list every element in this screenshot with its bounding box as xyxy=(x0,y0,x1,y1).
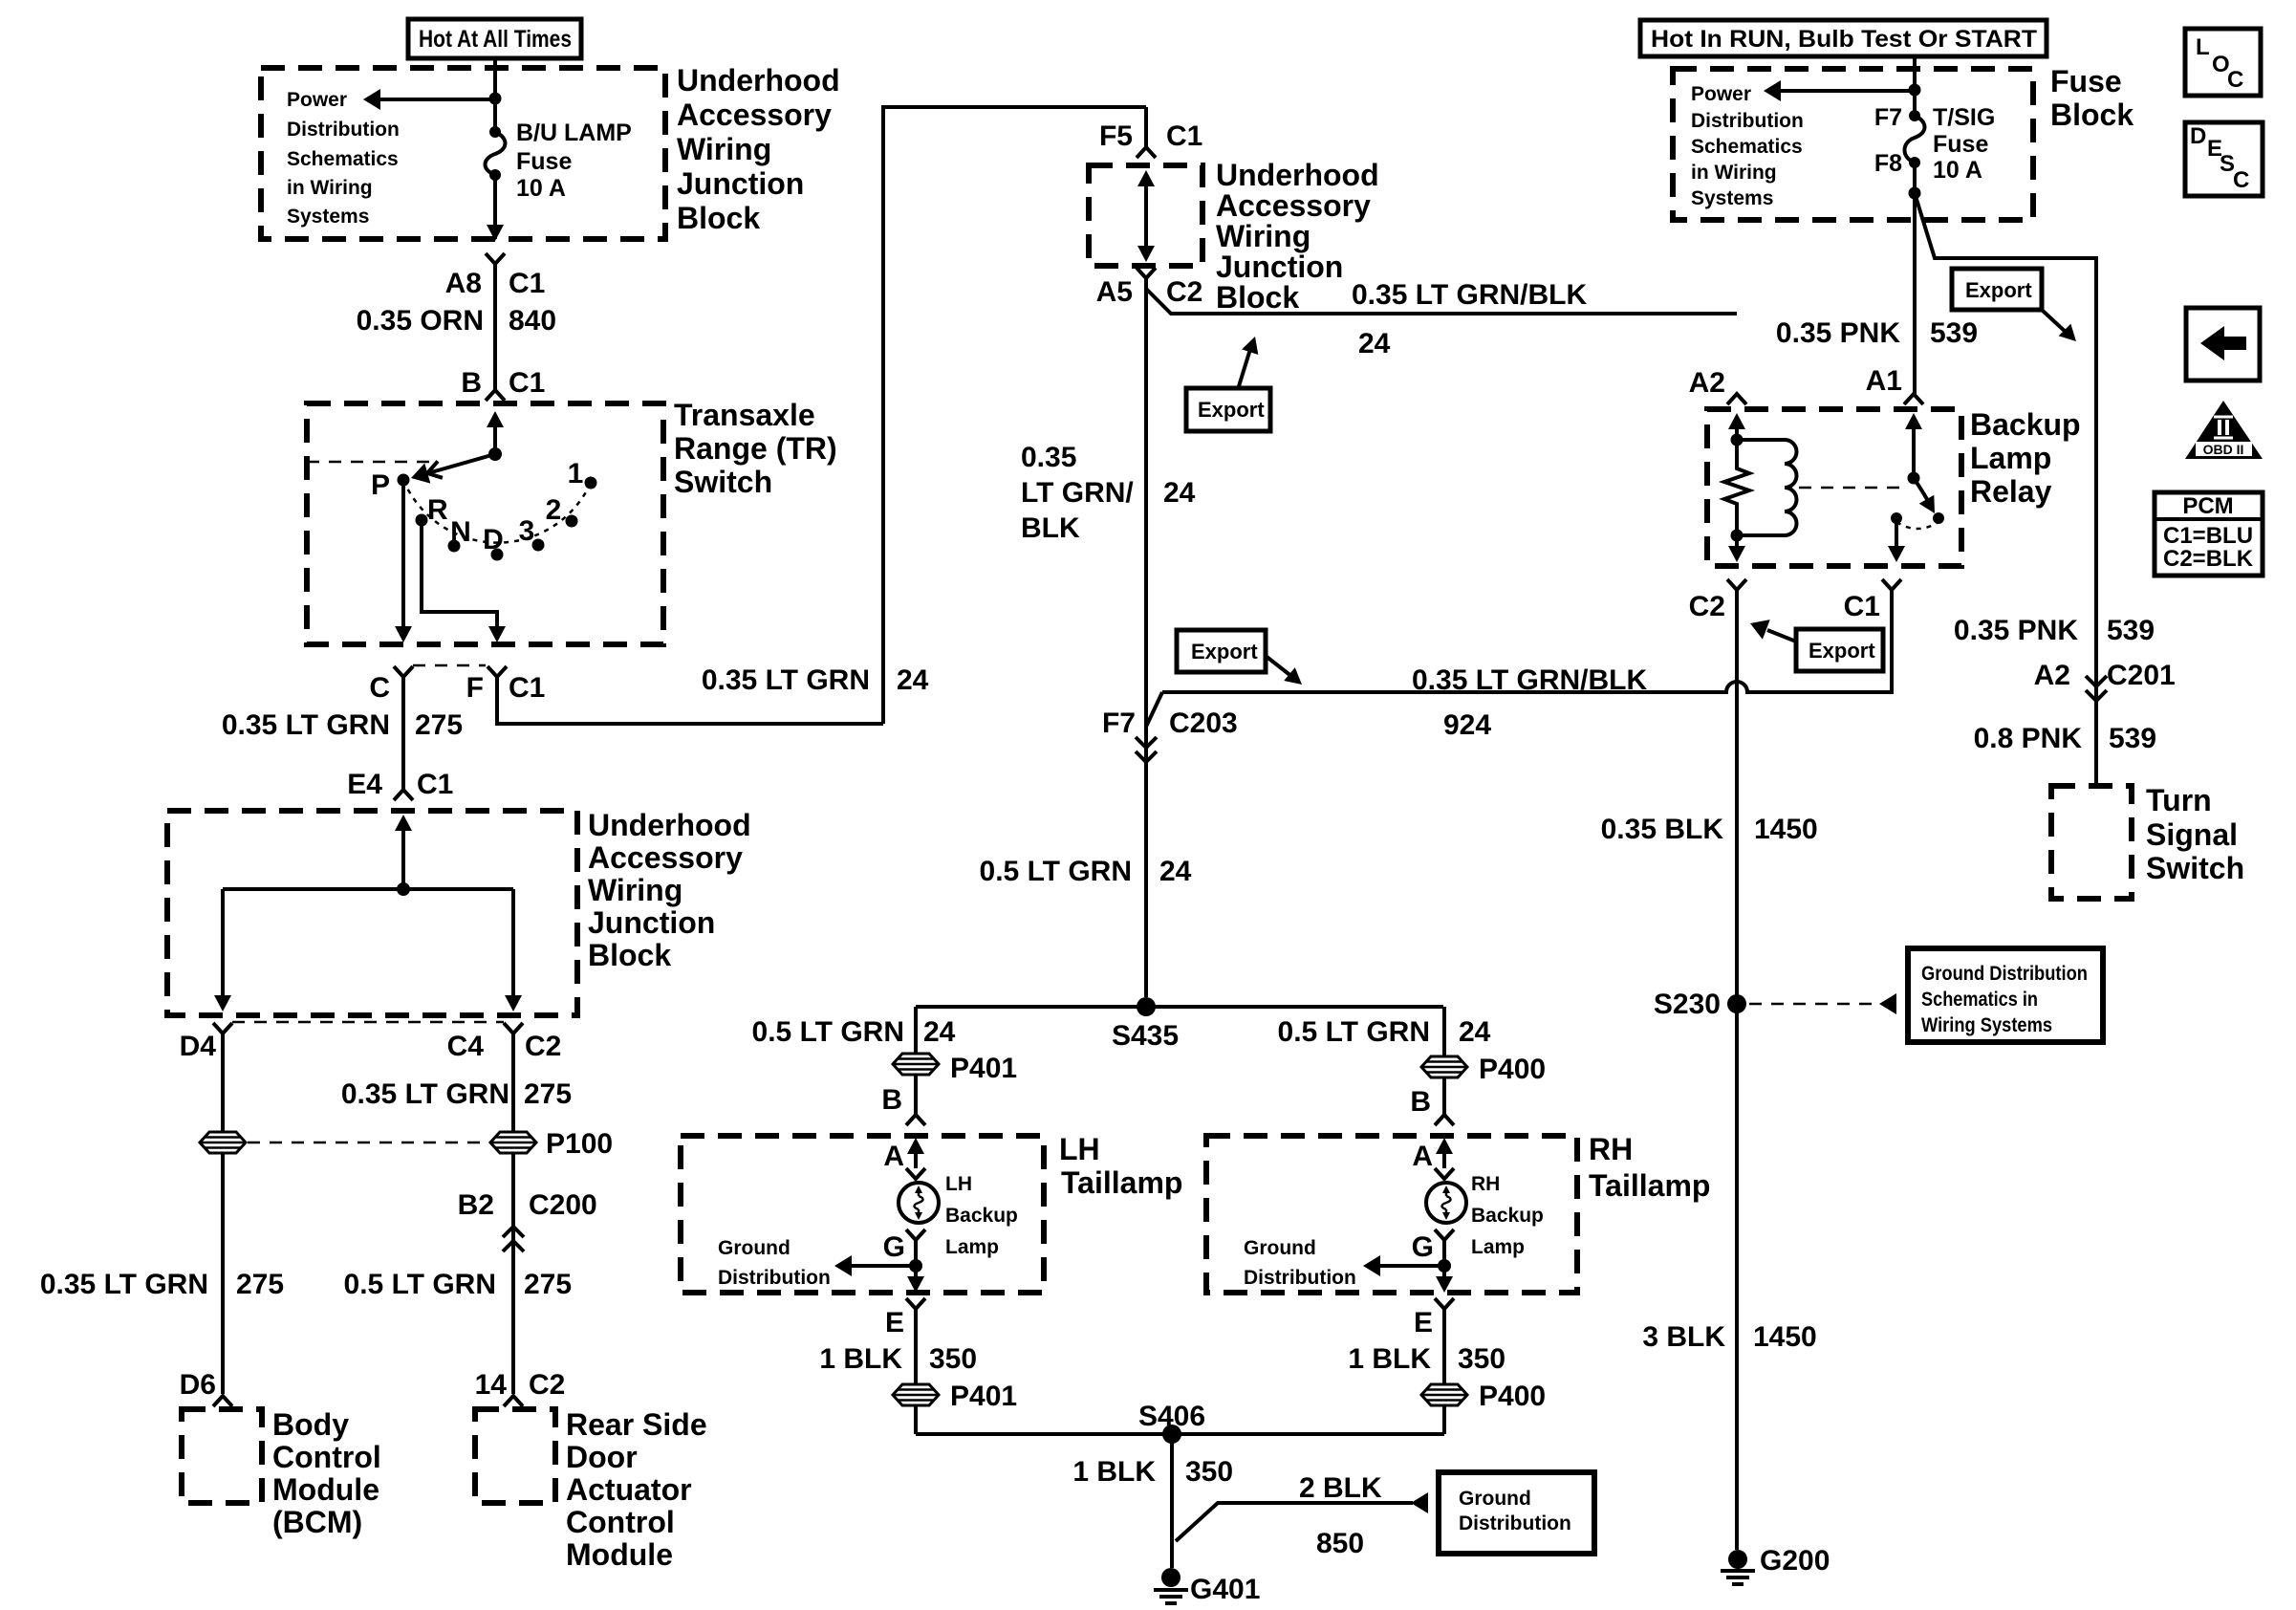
svg-text:0.35 PNK: 0.35 PNK xyxy=(1954,615,2078,646)
node: relay coil bottom xyxy=(1731,530,1744,542)
svg-text:Wiring: Wiring xyxy=(1216,219,1310,253)
svg-text:Distribution: Distribution xyxy=(1691,110,1804,132)
relay link dashed xyxy=(1799,487,1904,490)
svg-text:C1=BLU: C1=BLU xyxy=(2163,523,2253,549)
connector C201 (double chevron down) xyxy=(2086,676,2107,701)
icon: back arrow box xyxy=(2186,308,2260,381)
wire: P400 to pin B (RH) xyxy=(1442,1078,1446,1115)
wire: P401 to pin B xyxy=(914,1076,918,1115)
svg-text:C200: C200 xyxy=(529,1189,597,1221)
svg-text:Accessory: Accessory xyxy=(677,98,832,132)
svg-text:Ground Distribution: Ground Distribution xyxy=(1921,963,2088,985)
TR switch movable arm to P xyxy=(408,454,495,489)
svg-text:0.5 LT GRN: 0.5 LT GRN xyxy=(1278,1016,1430,1048)
svg-text:D4: D4 xyxy=(180,1031,217,1062)
svg-text:Backup: Backup xyxy=(1471,1205,1544,1227)
svg-text:Systems: Systems xyxy=(1691,187,1773,209)
svg-text:C2: C2 xyxy=(525,1031,561,1062)
svg-text:Transaxle: Transaxle xyxy=(674,398,815,432)
svg-text:G401: G401 xyxy=(1190,1574,1260,1605)
wire: F8 down to relay A1 0.35 PNK 539 xyxy=(1913,163,1917,394)
svg-text:0.35 LT GRN: 0.35 LT GRN xyxy=(341,1078,509,1110)
connector P400 upper xyxy=(1421,1056,1467,1077)
node: TR switch arm pivot xyxy=(488,447,502,461)
svg-text:A: A xyxy=(1412,1141,1433,1172)
label: Underhood Accessory Wiring Junction Block (box2) xyxy=(588,808,751,972)
svg-text:850: 850 xyxy=(1316,1528,1364,1559)
svg-text:Block: Block xyxy=(588,938,671,972)
label: Fuse Block xyxy=(2050,64,2134,132)
svg-text:24: 24 xyxy=(1459,1016,1491,1048)
node: RH ground junction xyxy=(1438,1259,1451,1273)
connector E female (LH) xyxy=(906,1298,925,1309)
junction block box 3 (middle) xyxy=(1089,165,1202,266)
svg-text:E4: E4 xyxy=(347,769,382,800)
svg-text:LH: LH xyxy=(1059,1132,1100,1166)
reference text: Ground Distribution (RH) xyxy=(1244,1237,1356,1289)
svg-text:0.5 LT GRN: 0.5 LT GRN xyxy=(752,1016,904,1048)
wire: contact to C1 arrow xyxy=(1888,518,1905,562)
svg-text:0.35 PNK: 0.35 PNK xyxy=(1776,317,1900,349)
svg-text:S435: S435 xyxy=(1112,1020,1179,1052)
svg-text:G: G xyxy=(883,1231,905,1263)
wire: coil to C2 arrow xyxy=(1728,535,1745,562)
connector G female (RH) xyxy=(1435,1229,1454,1240)
connector P401 lower xyxy=(893,1384,939,1405)
svg-text:0.35 LT GRN/BLK: 0.35 LT GRN/BLK xyxy=(1352,279,1587,311)
svg-text:0.8 PNK: 0.8 PNK xyxy=(1974,723,2083,754)
wire: A1 arrow to switch pivot xyxy=(1905,413,1922,478)
svg-text:2 BLK: 2 BLK xyxy=(1299,1472,1382,1504)
connector P100 left xyxy=(200,1132,246,1153)
svg-text:Underhood: Underhood xyxy=(588,808,751,842)
svg-text:Control: Control xyxy=(272,1440,381,1474)
svg-text:C1: C1 xyxy=(417,769,453,800)
PCM connector color legend box xyxy=(2155,492,2263,576)
svg-text:Wiring: Wiring xyxy=(588,873,682,907)
connector E4 C1 into junction block 2 xyxy=(394,790,413,800)
wire: banner2 down to F7 xyxy=(1913,56,1917,117)
svg-text:B/U LAMP: B/U LAMP xyxy=(516,120,632,146)
svg-text:B: B xyxy=(461,367,482,399)
svg-text:C2=BLK: C2=BLK xyxy=(2163,546,2254,572)
ground distribution reference box (bottom) xyxy=(1439,1472,1594,1554)
svg-text:Junction: Junction xyxy=(1216,250,1343,284)
connector D6 into BCM xyxy=(213,1396,232,1406)
wire: C4 branch down 0.35 LT GRN 275 xyxy=(511,1033,515,1131)
lamp: RH backup lamp bulb xyxy=(1426,1183,1466,1223)
svg-text:C: C xyxy=(369,672,390,704)
fuse: B/U LAMP Fuse 10 A xyxy=(486,126,506,181)
svg-text:F7: F7 xyxy=(1102,707,1136,739)
svg-text:C: C xyxy=(2233,167,2249,193)
connector A female (LH) xyxy=(906,1168,925,1179)
svg-text:Block: Block xyxy=(1216,280,1299,315)
svg-text:0.35 LT GRN: 0.35 LT GRN xyxy=(702,664,870,696)
svg-text:A5: A5 xyxy=(1096,276,1133,308)
svg-text:10 A: 10 A xyxy=(1933,157,1982,184)
svg-text:Accessory: Accessory xyxy=(1216,188,1371,223)
reference text: Power Distribution Schematics in Wiring Systems xyxy=(287,89,400,228)
svg-text:OBD II: OBD II xyxy=(2203,442,2244,457)
svg-text:Export: Export xyxy=(1965,278,2032,302)
connector A female (RH) xyxy=(1435,1168,1454,1179)
svg-text:1 BLK: 1 BLK xyxy=(819,1343,902,1375)
banner: Hot At All Times xyxy=(408,19,581,58)
svg-text:1450: 1450 xyxy=(1754,814,1818,845)
svg-text:Distribution: Distribution xyxy=(1459,1512,1571,1534)
svg-text:0.35: 0.35 xyxy=(1021,442,1076,473)
connector F5 C1 (female Y) xyxy=(1137,147,1156,158)
svg-text:C1: C1 xyxy=(509,367,545,399)
pin E arrow out of LH taillamp xyxy=(907,1276,924,1293)
svg-text:Power: Power xyxy=(1691,83,1751,105)
svg-text:A2: A2 xyxy=(2034,660,2070,691)
node: junction dot feeding Power Distribution xyxy=(489,93,502,105)
label: Underhood Accessory Wiring Junction Block (box1) xyxy=(677,63,840,235)
TR contact 2 xyxy=(566,515,578,528)
node S406 xyxy=(1162,1425,1181,1444)
connector F (female Y) xyxy=(487,666,507,677)
wire: R contact to pin F xyxy=(422,520,506,642)
wire: branch to relay A2 0.35 LT GRN/BLK 24 xyxy=(1146,289,1737,314)
wire: G to junction xyxy=(914,1240,918,1279)
label: T/SIG Fuse 10 A xyxy=(1933,104,1995,184)
svg-text:0.35 LT GRN/BLK: 0.35 LT GRN/BLK xyxy=(1412,664,1647,696)
wire: left branch below P100 xyxy=(221,1154,225,1394)
ground distribution schematics reference box xyxy=(1908,948,2103,1042)
wire: RH drop 0.5 LT GRN 24 xyxy=(1442,1007,1446,1056)
connector P401 upper xyxy=(893,1054,939,1075)
svg-text:Junction: Junction xyxy=(677,166,804,201)
svg-text:G: G xyxy=(1412,1231,1434,1263)
label: Turn Signal Switch xyxy=(2146,783,2244,885)
svg-text:G200: G200 xyxy=(1760,1545,1830,1577)
svg-text:E: E xyxy=(885,1307,904,1338)
wire: P401 to S406 xyxy=(914,1406,918,1434)
svg-text:Export: Export xyxy=(1191,640,1258,664)
svg-text:539: 539 xyxy=(2109,723,2156,754)
svg-text:Switch: Switch xyxy=(2146,851,2244,885)
node: box2 split dot xyxy=(397,882,410,896)
TR dashed position line xyxy=(307,461,432,464)
connector C200 (double chevron up) xyxy=(503,1227,524,1251)
pin E arrow out of RH taillamp xyxy=(1436,1276,1453,1293)
junction block box 2 (Underhood Accessory Wiring Junction Block) xyxy=(167,811,577,1015)
svg-text:P400: P400 xyxy=(1479,1381,1546,1412)
svg-text:B: B xyxy=(881,1084,902,1116)
wire: relay C2 down 0.35 BLK 1450 xyxy=(1735,590,1739,1550)
wire: riser up and across to F5 xyxy=(883,107,1146,724)
svg-text:Hot At All Times: Hot At All Times xyxy=(419,26,572,53)
svg-text:Schematics in: Schematics in xyxy=(1921,989,2038,1011)
svg-text:RH: RH xyxy=(1589,1132,1633,1166)
connector P400 lower xyxy=(1421,1384,1467,1405)
label: Transaxle Range (TR) Switch xyxy=(674,398,837,499)
node: LH ground junction xyxy=(909,1259,922,1273)
svg-text:RH: RH xyxy=(1471,1173,1500,1195)
svg-text:350: 350 xyxy=(1458,1343,1505,1375)
svg-text:0.35 ORN: 0.35 ORN xyxy=(357,305,484,337)
svg-text:Wiring Systems: Wiring Systems xyxy=(1921,1014,2052,1036)
reference text: Ground Distribution (LH) xyxy=(718,1237,831,1289)
fuse: T/SIG Fuse 10 A xyxy=(1905,110,1925,168)
label: Underhood Accessory Wiring Junction Block (box3) xyxy=(1216,158,1379,315)
svg-text:D: D xyxy=(2190,123,2206,149)
svg-text:A8: A8 xyxy=(445,268,482,299)
svg-text:Door: Door xyxy=(566,1440,638,1474)
svg-text:Switch: Switch xyxy=(674,465,772,499)
svg-text:A2: A2 xyxy=(1689,367,1725,399)
svg-text:1 BLK: 1 BLK xyxy=(1348,1343,1431,1375)
connector P100 right xyxy=(490,1132,536,1153)
svg-text:Fuse: Fuse xyxy=(2050,64,2122,98)
lamp: LH backup lamp bulb xyxy=(899,1183,939,1223)
connector C1 below relay xyxy=(1882,579,1901,590)
svg-text:275: 275 xyxy=(236,1269,284,1300)
pin A arrow into RH taillamp xyxy=(1436,1138,1453,1168)
wire: P400 to S406 (RH) xyxy=(1442,1406,1446,1434)
svg-text:Turn: Turn xyxy=(2146,783,2212,817)
svg-text:C1: C1 xyxy=(509,268,545,299)
svg-text:840: 840 xyxy=(509,305,556,337)
svg-text:Underhood: Underhood xyxy=(1216,158,1379,192)
svg-text:Ground: Ground xyxy=(1244,1237,1316,1259)
svg-text:Control: Control xyxy=(566,1505,675,1539)
relay coil xyxy=(1737,440,1797,535)
banner: Hot In RUN, Bulb Test Or START xyxy=(1640,20,2047,56)
svg-text:(BCM): (BCM) xyxy=(272,1505,362,1539)
svg-text:Distribution: Distribution xyxy=(1244,1267,1356,1289)
svg-text:LH: LH xyxy=(945,1173,972,1195)
svg-text:C1: C1 xyxy=(509,672,545,704)
svg-text:Relay: Relay xyxy=(1970,474,2052,509)
ground G200 xyxy=(1721,1550,1755,1584)
wire: diagonal into F7 xyxy=(1146,692,1162,727)
svg-text:C1: C1 xyxy=(1166,120,1202,152)
wire: LH ground distribution arrow xyxy=(834,1255,916,1276)
wire: arrow to Power Distribution xyxy=(363,89,495,110)
svg-text:924: 924 xyxy=(1443,709,1491,741)
svg-text:Module: Module xyxy=(566,1537,673,1572)
wire: arrow to Power Distribution (fuse block) xyxy=(1764,80,1915,101)
svg-text:Schematics: Schematics xyxy=(287,148,399,170)
svg-text:Module: Module xyxy=(272,1472,379,1507)
svg-text:3 BLK: 3 BLK xyxy=(1642,1321,1725,1353)
svg-text:Taillamp: Taillamp xyxy=(1589,1168,1710,1203)
svg-text:3: 3 xyxy=(519,515,535,547)
wire: S406 down 1 BLK 350 xyxy=(1170,1434,1174,1568)
svg-text:P100: P100 xyxy=(546,1128,613,1160)
wire: P contact to pin C xyxy=(395,480,412,642)
wire: 0.35 ORN 840 xyxy=(493,264,497,390)
svg-text:1 BLK: 1 BLK xyxy=(1072,1456,1156,1488)
svg-text:Block: Block xyxy=(677,201,760,235)
svg-text:P401: P401 xyxy=(950,1053,1017,1084)
svg-text:P400: P400 xyxy=(1479,1054,1546,1085)
wire: G to junction (RH) xyxy=(1442,1240,1446,1279)
LH taillamp box xyxy=(681,1136,1044,1293)
connector D4 (female Y) xyxy=(213,1023,232,1033)
wire: E down 1 BLK 350 (RH) xyxy=(1442,1309,1446,1384)
wire: D4 branch down xyxy=(221,1033,225,1131)
TR contact 3 xyxy=(532,539,545,552)
svg-text:C201: C201 xyxy=(2107,660,2176,691)
svg-text:Wiring: Wiring xyxy=(677,132,771,166)
wire: branch to turn signal riser xyxy=(1915,193,2096,786)
svg-text:in Wiring: in Wiring xyxy=(1691,162,1777,184)
relay switch arm xyxy=(1914,478,1942,518)
svg-text:D: D xyxy=(483,524,504,555)
wire: box2 left leg to D4 xyxy=(214,889,231,1012)
TR contact R xyxy=(416,514,428,527)
TR contact 1 xyxy=(585,477,597,490)
svg-text:1450: 1450 xyxy=(1753,1321,1817,1353)
svg-text:Body: Body xyxy=(272,1407,349,1442)
wire: S435 splitter horizontal xyxy=(916,1005,1443,1009)
connector A8 C1 (female Y) xyxy=(486,253,505,264)
connector 14 C2 into module xyxy=(504,1396,523,1406)
svg-text:F8: F8 xyxy=(1874,150,1902,177)
svg-text:539: 539 xyxy=(2107,615,2155,646)
connector D4 C4 C2 dashed link xyxy=(232,1021,504,1024)
svg-text:24: 24 xyxy=(897,664,929,696)
ground G401 xyxy=(1154,1568,1188,1603)
svg-text:275: 275 xyxy=(524,1269,572,1300)
svg-text:Export: Export xyxy=(1198,398,1265,422)
node: F8 output dot xyxy=(1909,187,1921,200)
TR contact P xyxy=(398,474,410,487)
svg-text:C: C xyxy=(2227,67,2243,93)
wire: export line 0.35 LT GRN/BLK 924 to relay C1 xyxy=(1162,590,1892,692)
svg-text:C1: C1 xyxy=(1844,591,1880,622)
svg-text:R: R xyxy=(427,494,448,526)
svg-text:C2: C2 xyxy=(1166,276,1202,308)
wire: LH drop 0.5 LT GRN 24 xyxy=(914,1007,918,1054)
connector A2 into relay xyxy=(1727,394,1746,404)
node S435 xyxy=(1137,997,1156,1016)
connector G female (LH) xyxy=(906,1229,925,1240)
svg-text:BLK: BLK xyxy=(1021,512,1080,544)
svg-text:Range (TR): Range (TR) xyxy=(674,431,837,466)
transaxle range switch box xyxy=(307,403,663,644)
svg-text:Ground: Ground xyxy=(1459,1488,1531,1510)
icon: LOC box xyxy=(2185,29,2261,96)
svg-text:Fuse: Fuse xyxy=(1933,131,1988,158)
connector B into LH taillamp xyxy=(906,1115,925,1125)
svg-text:24: 24 xyxy=(923,1016,956,1048)
svg-text:Backup: Backup xyxy=(945,1205,1018,1227)
export reference box 4 xyxy=(1952,269,2082,347)
svg-text:F: F xyxy=(466,672,484,704)
RH taillamp box xyxy=(1206,1136,1577,1293)
svg-text:350: 350 xyxy=(1185,1456,1233,1488)
P100 dashed link xyxy=(248,1142,488,1144)
svg-text:LT GRN/: LT GRN/ xyxy=(1021,477,1134,509)
wire: box2 split horizontal xyxy=(223,887,513,891)
relay contact dashed arc xyxy=(1896,522,1939,529)
svg-text:D6: D6 xyxy=(180,1369,216,1401)
label: LH Taillamp xyxy=(1059,1132,1182,1200)
svg-text:Systems: Systems xyxy=(287,206,369,228)
svg-text:L: L xyxy=(2196,34,2210,60)
node S230 xyxy=(1727,994,1746,1013)
svg-text:Distribution: Distribution xyxy=(718,1267,831,1289)
svg-text:Junction: Junction xyxy=(588,905,715,940)
svg-text:A: A xyxy=(883,1141,904,1172)
wire: E4 arrow into box2 xyxy=(395,815,412,889)
icon: DESC box xyxy=(2185,122,2263,196)
svg-text:Lamp: Lamp xyxy=(1471,1236,1525,1258)
relay contact common xyxy=(1891,512,1902,524)
node: relay coil top xyxy=(1731,434,1744,446)
svg-text:Block: Block xyxy=(2050,98,2134,132)
connector C203 (double chevron down) xyxy=(1136,737,1157,762)
relay contact NO xyxy=(1933,512,1944,524)
svg-text:C203: C203 xyxy=(1169,707,1238,739)
svg-text:Accessory: Accessory xyxy=(588,840,743,875)
wire: S406 splitter horizontal xyxy=(916,1432,1444,1436)
svg-text:PCM: PCM xyxy=(2182,493,2233,519)
export reference box 2 xyxy=(1177,630,1308,691)
body control module box xyxy=(182,1409,262,1503)
node: relay switch pivot xyxy=(1908,472,1920,485)
svg-text:1: 1 xyxy=(568,458,584,490)
wire: E down 1 BLK 350 (LH) xyxy=(914,1309,918,1384)
svg-text:0.35 LT GRN: 0.35 LT GRN xyxy=(222,709,390,741)
svg-text:C4: C4 xyxy=(447,1031,485,1062)
svg-text:0.5 LT GRN: 0.5 LT GRN xyxy=(980,856,1132,887)
wire: A2 arrow into relay xyxy=(1728,413,1745,440)
svg-text:E: E xyxy=(1414,1307,1433,1338)
wire label: 0.35 LT GRN/ BLK (vertical run) xyxy=(1021,442,1134,544)
svg-text:275: 275 xyxy=(524,1078,572,1110)
pin A arrow into LH taillamp xyxy=(907,1138,924,1168)
connector A1 into relay xyxy=(1904,394,1923,404)
fuse block box xyxy=(1673,69,2033,220)
svg-text:Distribution: Distribution xyxy=(287,119,400,141)
TR contact D xyxy=(491,549,504,561)
wire: corner down to F5 xyxy=(1144,107,1148,147)
backup lamp relay box xyxy=(1707,409,1961,566)
svg-text:Lamp: Lamp xyxy=(1970,441,2051,475)
svg-text:Underhood: Underhood xyxy=(677,63,840,98)
svg-text:2: 2 xyxy=(546,494,562,526)
label: Body Control Module (BCM) xyxy=(272,1407,381,1539)
label: RH Backup Lamp xyxy=(1471,1173,1544,1258)
junction block box 1 (Underhood Accessory Wiring Junction Block) xyxy=(261,68,665,239)
node: fuse block power dot xyxy=(1909,84,1921,97)
wire: fuse down to box edge with arrow xyxy=(487,175,504,241)
icon: OBD II triangle xyxy=(2185,401,2263,459)
svg-text:Rear Side: Rear Side xyxy=(566,1407,707,1442)
connector E female (RH) xyxy=(1435,1298,1454,1309)
svg-text:Signal: Signal xyxy=(2146,817,2238,852)
svg-text:Taillamp: Taillamp xyxy=(1061,1165,1182,1200)
svg-text:C2: C2 xyxy=(529,1369,565,1401)
export reference box 3 xyxy=(1746,614,1883,671)
svg-text:F7: F7 xyxy=(1874,104,1902,131)
svg-text:Schematics: Schematics xyxy=(1691,136,1803,158)
wire: through box3 with arrows both ends xyxy=(1137,170,1155,262)
svg-text:Lamp: Lamp xyxy=(945,1236,999,1258)
connector B into RH taillamp xyxy=(1435,1115,1454,1125)
connector A5 C2 (female Y) xyxy=(1137,268,1156,278)
wire: banner to fuse xyxy=(493,58,497,133)
svg-text:S230: S230 xyxy=(1654,989,1721,1020)
wire: right branch below P100 xyxy=(511,1154,515,1394)
connector C (female Y) xyxy=(394,666,413,677)
